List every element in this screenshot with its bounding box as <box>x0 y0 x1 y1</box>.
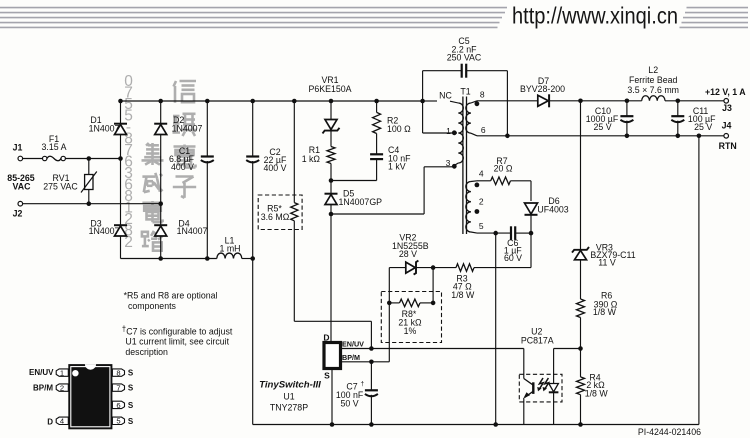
svg-text:T1: T1 <box>460 87 470 97</box>
svg-text:4: 4 <box>60 417 64 426</box>
svg-text:3: 3 <box>446 158 451 168</box>
svg-text:8: 8 <box>480 89 485 99</box>
svg-text:J1: J1 <box>13 143 23 153</box>
svg-text:S: S <box>128 401 134 410</box>
svg-text:+12 V, 1 A: +12 V, 1 A <box>705 87 746 97</box>
svg-text:5: 5 <box>116 417 120 426</box>
svg-text:11 V: 11 V <box>598 258 616 268</box>
svg-text:400 V: 400 V <box>171 162 194 172</box>
svg-text:S: S <box>324 371 330 381</box>
svg-text:NC: NC <box>439 91 452 101</box>
svg-text:50 V: 50 V <box>341 398 359 408</box>
svg-text:description: description <box>125 347 168 357</box>
svg-text:1/8 W: 1/8 W <box>585 389 609 399</box>
svg-text:U1: U1 <box>283 392 294 402</box>
svg-text:6: 6 <box>481 125 486 135</box>
svg-text:J4: J4 <box>722 121 732 131</box>
svg-text:TinySwitch-III: TinySwitch-III <box>259 380 321 391</box>
svg-text:3.5 × 7.6 mm: 3.5 × 7.6 mm <box>627 85 679 95</box>
svg-text:PC817A: PC817A <box>521 335 554 345</box>
svg-text:1N4007: 1N4007 <box>172 124 203 134</box>
svg-text:7: 7 <box>116 384 120 393</box>
svg-text:U1 current limit, see circuit: U1 current limit, see circuit <box>125 337 229 347</box>
svg-text:100 Ω: 100 Ω <box>387 124 411 134</box>
svg-text:1/8 W: 1/8 W <box>593 307 617 317</box>
svg-text:250 VAC: 250 VAC <box>447 53 482 63</box>
svg-text:†: † <box>361 381 365 388</box>
svg-text:20 Ω: 20 Ω <box>494 164 513 174</box>
svg-text:5: 5 <box>479 221 484 231</box>
svg-text:S: S <box>128 369 134 378</box>
svg-text:BP/M: BP/M <box>342 353 360 362</box>
svg-text:8: 8 <box>116 369 120 378</box>
svg-text:TNY278P: TNY278P <box>270 402 308 412</box>
svg-text:S: S <box>128 384 134 393</box>
svg-text:60 V: 60 V <box>504 253 522 263</box>
svg-text:4: 4 <box>479 169 484 179</box>
svg-text:S: S <box>128 417 134 426</box>
svg-text:BP/M: BP/M <box>33 384 53 393</box>
svg-text:25 V: 25 V <box>694 122 712 132</box>
svg-text:RTN: RTN <box>719 141 737 151</box>
svg-text:275 VAC: 275 VAC <box>43 181 78 191</box>
svg-text:25 V: 25 V <box>594 122 612 132</box>
svg-text:Ferrite Bead: Ferrite Bead <box>629 75 678 85</box>
svg-text:J2: J2 <box>13 209 23 219</box>
svg-text:2: 2 <box>479 196 484 206</box>
svg-text:D: D <box>47 417 53 426</box>
svg-text:L2: L2 <box>648 65 658 75</box>
svg-text:D: D <box>323 333 329 343</box>
svg-text:400 V: 400 V <box>264 163 287 173</box>
svg-text:UF4003: UF4003 <box>537 205 568 215</box>
svg-text:3.6 MΩ: 3.6 MΩ <box>261 212 290 222</box>
svg-text:VAC: VAC <box>13 181 32 191</box>
svg-text:1%: 1% <box>404 326 417 336</box>
svg-text:components: components <box>128 301 177 311</box>
svg-text:1 mH: 1 mH <box>219 243 240 253</box>
svg-text:BYV28-200: BYV28-200 <box>520 84 565 94</box>
svg-text:J3: J3 <box>722 103 732 113</box>
svg-text:28 V: 28 V <box>399 249 417 259</box>
svg-text:†C7 is configurable to adjust: †C7 is configurable to adjust <box>122 325 233 337</box>
svg-text:1N4007GP: 1N4007GP <box>339 197 383 207</box>
svg-text:1: 1 <box>60 369 64 378</box>
svg-text:1 kV: 1 kV <box>388 162 406 172</box>
svg-text:EN/UV: EN/UV <box>29 368 54 377</box>
svg-text:1N4007: 1N4007 <box>89 226 120 236</box>
svg-text:1: 1 <box>446 126 451 136</box>
svg-text:1/8 W: 1/8 W <box>451 290 475 300</box>
svg-text:PI-4244-021406: PI-4244-021406 <box>638 427 701 437</box>
svg-text:P6KE150A: P6KE150A <box>308 84 351 94</box>
svg-text:6: 6 <box>116 401 120 410</box>
svg-text:1N4007: 1N4007 <box>89 124 120 134</box>
svg-text:3.15 A: 3.15 A <box>42 142 67 152</box>
svg-text:1N4007: 1N4007 <box>177 226 208 236</box>
svg-text:1 kΩ: 1 kΩ <box>302 154 321 164</box>
svg-text:EN/UV: EN/UV <box>342 340 364 349</box>
svg-text:*R5 and R8 are optional: *R5 and R8 are optional <box>124 290 218 300</box>
svg-text:http://www.xinqi.cn: http://www.xinqi.cn <box>512 3 678 29</box>
svg-text:2: 2 <box>60 384 64 393</box>
